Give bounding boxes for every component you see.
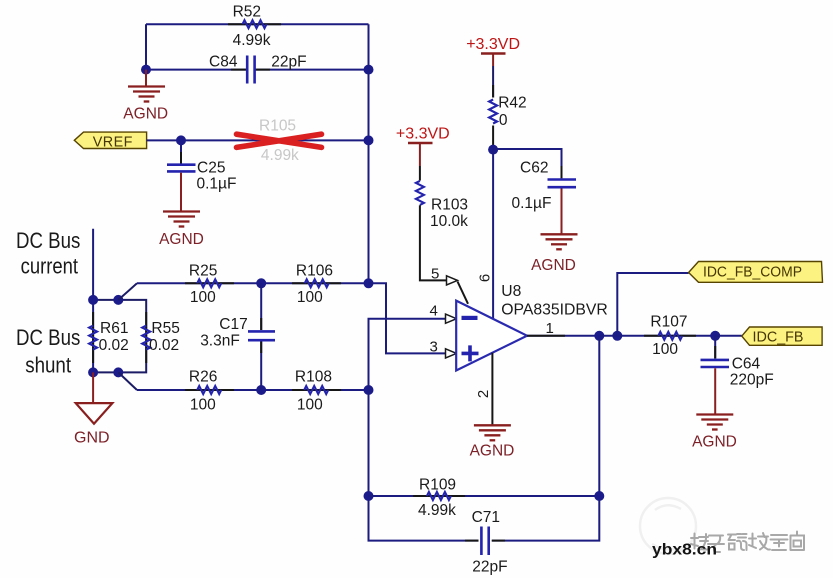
capacitor C62 [512,160,577,213]
svg-text:R105: R105 [259,117,296,134]
svg-text:IDC_FB: IDC_FB [753,330,804,346]
resistor R61 [89,312,129,363]
port VREF [74,132,146,150]
node junction right top [364,65,374,75]
svg-text:AGND: AGND [159,231,204,248]
wire C62 branch [493,149,561,178]
svg-text:U8: U8 [501,283,521,300]
wire pin 5 [420,205,447,280]
svg-text:0.02: 0.02 [99,337,129,354]
pin number 4 [430,303,438,320]
svg-text:10.0k: 10.0k [430,213,468,230]
node junction shunt top-left [88,295,98,305]
watermark logo [640,498,696,554]
power +3.3VD at R42 [466,36,520,66]
wire diagonal to R25 line [118,283,137,300]
node junction inverting rail top [364,278,374,288]
wire VREF net [147,139,369,141]
svg-text:C84: C84 [209,54,238,71]
resistor R25 [189,262,221,306]
svg-text:C62: C62 [520,160,548,177]
capacitor C25 [167,145,236,192]
svg-text:DC Bus: DC Bus [16,325,80,350]
svg-text:OPA835IDBVR: OPA835IDBVR [501,301,608,318]
svg-text:0: 0 [499,112,508,129]
svg-text:ybx8.cn: ybx8.cn [652,542,717,559]
ground AGND top-left [123,87,168,123]
svg-text:5: 5 [431,265,439,282]
svg-text:100: 100 [190,397,216,414]
wire output to R107 [599,335,715,337]
wire jog to op-amp pin 3 [369,283,447,353]
text DC Bus shunt [16,325,80,378]
capacitor C64 [701,336,774,389]
node junction feedback right [594,491,604,501]
resistor R106 [296,262,333,306]
node junction R42/C62/pin6 [488,145,498,155]
wire GND stub [92,372,94,403]
svg-text:3.3nF: 3.3nF [200,333,240,350]
svg-text:IDC_FB_COMP: IDC_FB_COMP [703,264,802,280]
wire feedback right rail [492,336,600,541]
resistor R105 (not fitted, crossed out) [237,117,322,164]
svg-text:0.02: 0.02 [149,337,179,354]
svg-text:R25: R25 [189,262,217,279]
capacitor C17 [200,283,275,390]
wire AGND stub [145,70,147,86]
svg-text:AGND: AGND [123,106,168,123]
wire pin 6 [492,150,494,319]
resistor R107 [650,314,687,359]
watermark ybx8.cn [652,542,717,559]
node junction R107/C64 [710,331,720,341]
svg-text:AGND: AGND [470,442,515,459]
op-amp U8 triangle [456,301,527,371]
svg-text:1: 1 [546,320,554,337]
wire feedback left rail [369,390,479,541]
wire R25/R106 line [137,282,369,284]
svg-text:R107: R107 [650,314,687,331]
wire R26/R108 line [137,389,369,391]
port IDC_FB_COMP [689,262,823,283]
wire C84 line [146,69,369,71]
node junction shunt bottom-left [88,367,98,377]
node junction feedback left [364,491,374,501]
svg-text:DC Bus: DC Bus [16,228,80,253]
svg-text:3: 3 [430,338,438,355]
svg-text:4.99k: 4.99k [418,502,456,519]
svg-text:0.1µF: 0.1µF [197,175,237,192]
node junction C17 bottom [256,385,266,395]
resistor R108 [295,369,332,414]
svg-text:R42: R42 [498,95,526,112]
node junction output/feedback [594,331,604,341]
wire top loop left vertical [145,24,147,69]
pin 5 arrowhead [447,276,469,304]
svg-text:+3.3VD: +3.3VD [466,36,520,53]
svg-text:VREF: VREF [93,134,133,150]
svg-text:GND: GND [74,430,110,447]
wire pin 2 [491,353,493,425]
pin number 2 [475,390,492,398]
svg-text:22pF: 22pF [271,54,306,71]
svg-text:4.99k: 4.99k [233,32,271,49]
resistor R103 [416,166,468,230]
resistor R55 [142,312,180,363]
svg-text:R55: R55 [151,320,179,337]
svg-text:22pF: 22pF [472,559,507,576]
node junction shunt bottom-right [113,367,123,377]
ground AGND under C62 [531,234,577,274]
svg-text:6: 6 [477,274,494,282]
ground AGND under op-amp [470,425,515,459]
node junction output/COMP branch [612,331,622,341]
wire output pin 1 [527,335,599,337]
pin number 3 [430,338,438,355]
wire C62 to AGND [561,189,563,235]
pin 4 arrowhead [446,314,457,323]
svg-text:R61: R61 [100,320,128,337]
watermark chinese text [691,532,804,553]
ground AGND under C25 [159,212,204,248]
wire COMP branch [617,273,688,336]
node junction left top [141,65,151,75]
svg-text:R26: R26 [189,369,217,386]
node junction VREF/C25 [176,135,186,145]
wire to IDC_FB port [715,335,742,337]
capacitor C71 [472,509,508,576]
svg-text:R103: R103 [431,197,468,214]
svg-text:AGND: AGND [531,257,576,274]
svg-text:shunt: shunt [25,352,71,377]
wire C64 to AGND [714,368,716,414]
svg-text:C25: C25 [197,160,225,177]
wire C25 to AGND [180,173,182,212]
wire diagonal to R26 line [118,372,137,390]
svg-text:C64: C64 [732,356,761,373]
svg-text:R52: R52 [233,4,261,21]
node junction R108 rail [364,385,374,395]
port IDC_FB [742,327,822,346]
ground GND [74,403,112,446]
wire top rail right vertical [368,24,370,283]
power +3.3VD at R103 [396,126,450,166]
svg-text:100: 100 [297,397,323,414]
svg-text:4.99k: 4.99k [261,147,299,164]
resistor R109 [418,477,456,520]
svg-text:C17: C17 [219,316,247,333]
pin 3 arrowhead [446,349,457,358]
wire R109 line [369,495,600,497]
wire shunt loop [93,300,146,373]
svg-text:100: 100 [652,341,678,358]
wire top loop horizontal [146,23,369,25]
node junction C17 top [256,278,266,288]
resistor R26 [189,369,221,414]
node junction VREF rail [364,135,374,145]
svg-text:+3.3VD: +3.3VD [396,126,450,143]
pin number 6 [477,274,494,282]
designator U8 OPA835IDBVR [501,283,608,319]
resistor R52 [233,4,271,50]
svg-text:220pF: 220pF [730,372,774,389]
ground AGND under C64 [692,415,737,451]
svg-text:0.1µF: 0.1µF [512,195,552,212]
svg-text:100: 100 [190,289,216,306]
svg-text:current: current [21,254,78,279]
svg-text:AGND: AGND [692,433,737,450]
svg-text:C71: C71 [472,509,500,526]
wire to op-amp pin 4 [369,319,447,390]
svg-text:4: 4 [430,303,438,320]
svg-text:R108: R108 [295,369,332,386]
svg-text:2: 2 [475,390,492,398]
wire DC bus vertical [92,229,94,373]
pin number 5 [431,265,439,282]
text DC Bus current [16,228,80,279]
svg-text:R106: R106 [296,262,333,279]
node junction shunt top-right [113,295,123,305]
svg-text:R109: R109 [419,477,456,494]
svg-text:100: 100 [297,289,323,306]
capacitor C84 [209,54,307,84]
resistor R42 [489,66,527,150]
pin number 1 [546,320,554,337]
